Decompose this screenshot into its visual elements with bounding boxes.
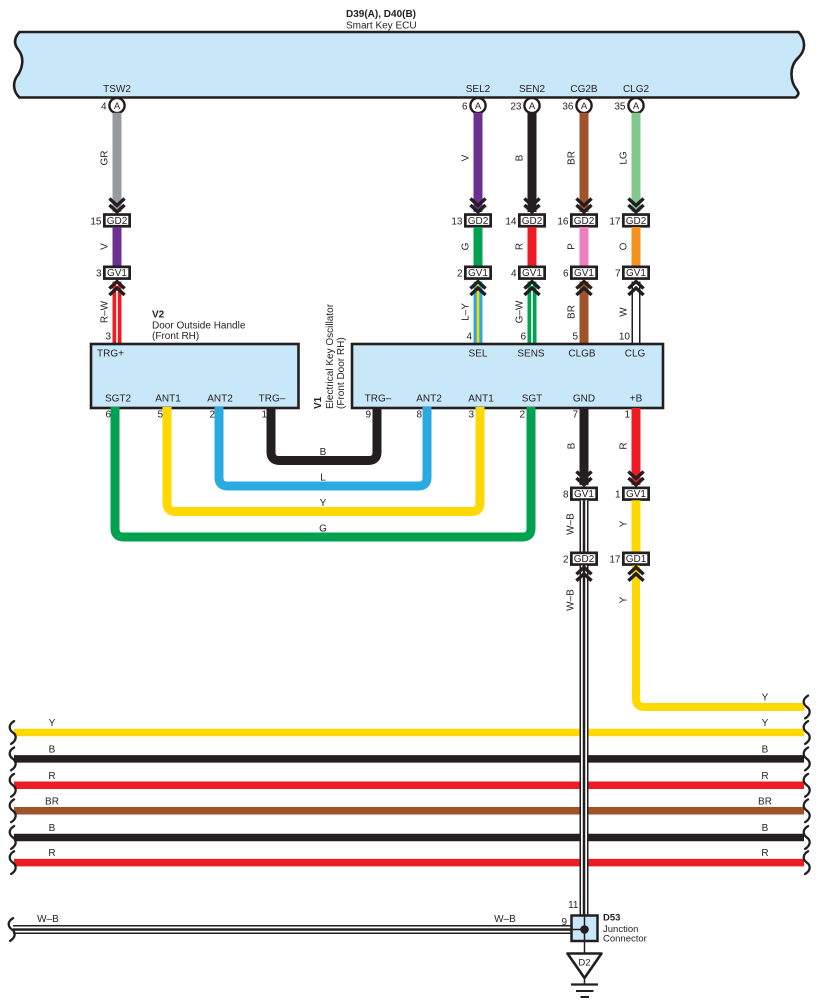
wire W-B to D53 pin 9 <box>13 925 572 934</box>
svg-text:V: V <box>461 154 472 161</box>
svg-text:L: L <box>320 473 326 484</box>
svg-text:16: 16 <box>557 216 569 227</box>
svg-text:Y: Y <box>619 596 630 603</box>
svg-text:4: 4 <box>511 269 517 280</box>
wire B (V2 TRG- 1 to V1 TRG- 9) <box>271 407 377 461</box>
svg-text:CLGB: CLGB <box>568 349 596 360</box>
svg-text:Door Outside Handle: Door Outside Handle <box>152 321 246 332</box>
svg-text:+B: +B <box>630 394 643 405</box>
svg-text:SGT2: SGT2 <box>105 394 132 405</box>
svg-text:GV1: GV1 <box>626 268 646 279</box>
svg-text:A: A <box>633 101 640 112</box>
wire Y (V2 ANT1 5 to V1 ANT1 3) <box>167 407 480 512</box>
svg-text:W–B: W–B <box>494 914 516 925</box>
break symbol BR left <box>10 799 16 822</box>
svg-text:G–W: G–W <box>515 300 526 323</box>
component V1 Electrical Key Oscillator (Front Door RH) box <box>352 344 663 408</box>
junction connector GV1 pin 2 <box>465 267 490 279</box>
svg-text:GD1: GD1 <box>626 554 647 565</box>
wire R from V1 +B <box>632 408 641 485</box>
wire W-B (GD2 2 down to D53 pin 11) <box>580 566 589 916</box>
svg-text:G: G <box>319 524 327 535</box>
svg-text:GD2: GD2 <box>107 216 128 227</box>
arrow down into GD2 13 <box>470 199 485 213</box>
svg-text:ANT2: ANT2 <box>207 394 233 405</box>
svg-text:W–B: W–B <box>566 589 577 611</box>
svg-text:GV1: GV1 <box>522 268 542 279</box>
wire W-B vertical crossing bus <box>580 700 589 916</box>
wire V (GD2 15 to GV1 3) <box>113 227 122 267</box>
junction connector GD2 pin 14 <box>519 215 544 227</box>
svg-text:Y: Y <box>762 693 769 704</box>
junction connector GV1 pin 7 <box>623 267 648 279</box>
svg-text:Y: Y <box>49 718 56 729</box>
connector circle A pin 35 (CLG2) <box>614 98 643 113</box>
svg-text:P: P <box>567 243 578 250</box>
break symbol R left <box>10 774 16 797</box>
svg-text:6: 6 <box>520 332 526 343</box>
junction connector GD2 pin 17 <box>623 215 648 227</box>
svg-text:A: A <box>529 101 536 112</box>
wire L (V2 ANT2 2 to V1 ANT2 8) <box>219 407 427 486</box>
bus wire B <box>14 834 804 842</box>
svg-text:1: 1 <box>624 410 630 421</box>
svg-text:10: 10 <box>619 332 631 343</box>
wire to ground D2 <box>584 930 586 954</box>
svg-text:A: A <box>475 101 482 112</box>
svg-text:R–W: R–W <box>100 300 111 323</box>
svg-text:D39(A), D40(B): D39(A), D40(B) <box>346 9 416 20</box>
wire B from V1 GND <box>580 408 589 485</box>
svg-text:R: R <box>48 848 55 859</box>
junction connector GD2 pin 15 <box>104 215 129 227</box>
svg-text:GD2: GD2 <box>574 216 595 227</box>
svg-text:GV1: GV1 <box>626 489 646 500</box>
svg-text:L–Y: L–Y <box>461 303 472 321</box>
wire G-W to V1 SENS <box>528 282 537 345</box>
svg-text:CLG: CLG <box>625 349 646 360</box>
break symbol Y right top <box>804 696 810 719</box>
svg-text:Y: Y <box>762 718 769 729</box>
arrow up from Y wire <box>628 567 643 581</box>
junction connector GD2 pin 2 <box>571 553 596 565</box>
arrow down into GD2 15 <box>109 199 124 213</box>
svg-text:TRG–: TRG– <box>365 394 392 405</box>
bus wire R <box>14 859 804 867</box>
wire Y elbow to right edge <box>636 566 804 708</box>
wire G (V2 SGT2 6 to V1 SGT 2) <box>115 407 531 537</box>
bus wire R <box>14 782 804 790</box>
wire BR from ECU CG2B <box>580 113 589 212</box>
svg-text:3: 3 <box>105 332 111 343</box>
svg-text:R: R <box>761 848 768 859</box>
svg-text:GR: GR <box>100 151 111 166</box>
svg-text:7: 7 <box>572 410 578 421</box>
connector circle A pin 4 (TSW2) <box>101 98 125 113</box>
svg-text:V1: V1 <box>313 396 324 409</box>
break symbol B left <box>10 826 16 849</box>
svg-text:(Front RH): (Front RH) <box>152 331 199 342</box>
svg-text:BR: BR <box>567 151 578 165</box>
junction connector GD2 pin 13 <box>465 215 490 227</box>
svg-text:2: 2 <box>519 410 525 421</box>
svg-text:ANT2: ANT2 <box>416 394 442 405</box>
connector circle A pin 6 (SEL2) <box>462 98 486 113</box>
svg-text:GD2: GD2 <box>522 216 543 227</box>
svg-text:GV1: GV1 <box>574 268 594 279</box>
junction connector GV1 pin 8 <box>571 488 596 500</box>
svg-text:2: 2 <box>457 269 463 280</box>
wire P (GD2 16 to GV1 6) <box>580 227 589 267</box>
svg-text:B: B <box>49 744 56 755</box>
svg-text:11: 11 <box>568 900 579 911</box>
svg-text:35: 35 <box>614 102 626 113</box>
svg-text:D53: D53 <box>603 913 620 924</box>
svg-text:Y: Y <box>619 520 630 527</box>
svg-text:SGT: SGT <box>522 394 543 405</box>
svg-text:B: B <box>320 447 327 458</box>
break symbol R right <box>804 851 810 874</box>
svg-text:B: B <box>49 823 56 834</box>
svg-text:W: W <box>619 307 630 317</box>
component V2 Door Outside Handle (Front RH) box <box>91 344 299 408</box>
arrow up from BR wire <box>576 282 591 296</box>
bus wire Y <box>14 729 804 737</box>
break symbol Y right <box>804 721 810 744</box>
svg-text:R: R <box>515 243 526 250</box>
svg-text:6: 6 <box>462 102 468 113</box>
svg-text:8: 8 <box>563 489 569 500</box>
svg-text:SEN2: SEN2 <box>519 84 546 95</box>
svg-text:BR: BR <box>758 796 772 807</box>
wire O (GD2 17 to GV1 7) <box>632 227 641 267</box>
svg-text:17: 17 <box>609 554 621 565</box>
connector circle A pin 23 (SEN2) <box>510 98 539 113</box>
wire BR to V1 CLGB <box>580 282 589 345</box>
svg-text:W–B: W–B <box>566 513 577 535</box>
junction connector GD2 pin 16 <box>571 215 596 227</box>
svg-text:(Front Door RH): (Front Door RH) <box>336 337 347 409</box>
svg-text:5: 5 <box>572 332 578 343</box>
arrow down into GD2 14 <box>524 199 539 213</box>
svg-text:LG: LG <box>619 151 630 165</box>
break symbol R right <box>804 774 810 797</box>
junction connector GD1 pin 17 <box>623 553 648 565</box>
break symbol BR right <box>804 799 810 822</box>
svg-text:SEL2: SEL2 <box>466 84 491 95</box>
svg-text:1: 1 <box>615 489 621 500</box>
wire L-Y to V1 SEL <box>474 282 483 345</box>
svg-text:B: B <box>515 154 526 161</box>
svg-text:TRG–: TRG– <box>259 394 286 405</box>
svg-text:SEL: SEL <box>469 349 488 360</box>
bus wire BR <box>14 807 804 815</box>
junction connector GV1 pin 3 <box>104 267 129 279</box>
arrow up from L–Y wire <box>470 282 485 296</box>
svg-text:B: B <box>762 744 769 755</box>
svg-text:Smart Key ECU: Smart Key ECU <box>346 21 417 32</box>
ground triangle D2 <box>568 954 602 979</box>
arrow up from W wire <box>628 282 643 296</box>
svg-text:CG2B: CG2B <box>570 84 598 95</box>
svg-text:TSW2: TSW2 <box>103 84 131 95</box>
arrow down into GV1 1 <box>628 472 643 486</box>
break symbol B right <box>804 826 810 849</box>
svg-text:B: B <box>567 442 578 449</box>
wire GR from ECU TSW2 <box>113 113 122 212</box>
arrow up from G–W wire <box>524 282 539 296</box>
svg-text:A: A <box>114 101 121 112</box>
wire G (GD2 13 to GV1 2) <box>474 227 483 267</box>
svg-text:4: 4 <box>466 332 472 343</box>
svg-text:B: B <box>762 823 769 834</box>
break symbol R left <box>10 851 16 874</box>
arrow down into GD2 17 <box>628 199 643 213</box>
svg-text:Electrical Key Oscillator: Electrical Key Oscillator <box>325 303 336 409</box>
wire LG from ECU CLG2 <box>632 113 641 212</box>
svg-text:2: 2 <box>563 554 569 565</box>
svg-text:3: 3 <box>468 410 474 421</box>
wire R (GD2 14 to GV1 4) <box>528 227 537 267</box>
svg-text:8: 8 <box>416 410 422 421</box>
wire V from ECU SEL2 <box>474 113 483 212</box>
svg-text:6: 6 <box>563 269 569 280</box>
arrow down into GV1 8 <box>576 472 591 486</box>
svg-text:3: 3 <box>96 269 102 280</box>
svg-text:Y: Y <box>320 498 327 509</box>
svg-text:CLG2: CLG2 <box>623 84 650 95</box>
junction connector GV1 pin 6 <box>571 267 596 279</box>
svg-text:7: 7 <box>615 269 621 280</box>
svg-text:BR: BR <box>567 305 578 319</box>
svg-text:SENS: SENS <box>517 349 545 360</box>
break symbol W-B left <box>9 918 15 941</box>
svg-text:17: 17 <box>609 216 621 227</box>
junction connector D53 <box>572 916 598 942</box>
svg-text:GND: GND <box>573 394 595 405</box>
svg-text:R: R <box>619 442 630 449</box>
svg-text:15: 15 <box>90 216 102 227</box>
svg-text:9: 9 <box>561 917 567 928</box>
svg-text:GD2: GD2 <box>468 216 489 227</box>
svg-text:14: 14 <box>505 216 517 227</box>
svg-text:BR: BR <box>45 796 59 807</box>
connector circle A pin 36 (CG2B) <box>562 98 591 113</box>
arrow up from W-B wire <box>576 567 591 581</box>
break symbol Y left <box>10 721 16 744</box>
svg-text:GD2: GD2 <box>574 554 595 565</box>
wire W to V1 CLG <box>632 282 641 345</box>
wire B from ECU SEN2 <box>528 113 537 212</box>
arrow up from R-W wire <box>109 282 124 296</box>
svg-text:O: O <box>619 242 630 250</box>
svg-text:V: V <box>100 243 111 250</box>
svg-text:GD2: GD2 <box>626 216 647 227</box>
bus wire B <box>14 755 804 763</box>
wire Y (GV1 1 to GD1 17) <box>632 500 641 552</box>
svg-text:GV1: GV1 <box>574 489 594 500</box>
svg-text:4: 4 <box>101 102 107 113</box>
svg-text:ANT1: ANT1 <box>468 394 494 405</box>
svg-text:9: 9 <box>365 410 371 421</box>
svg-text:GV1: GV1 <box>468 268 488 279</box>
ECU band D39(A) D40(B) Smart Key ECU <box>14 32 804 98</box>
svg-text:TRG+: TRG+ <box>97 349 124 360</box>
junction connector GV1 pin 1 <box>623 488 648 500</box>
wire R-W to V2 TRG+ <box>113 282 122 345</box>
svg-text:GV1: GV1 <box>107 268 127 279</box>
svg-text:G: G <box>461 242 472 250</box>
svg-text:Connector: Connector <box>603 934 647 945</box>
svg-text:W–B: W–B <box>37 914 59 925</box>
svg-text:13: 13 <box>451 216 463 227</box>
ground symbol <box>571 978 598 997</box>
junction connector GV1 pin 4 <box>519 267 544 279</box>
svg-text:36: 36 <box>562 102 574 113</box>
svg-text:ANT1: ANT1 <box>155 394 181 405</box>
wire W-B (GV1 8 to GD2 2) <box>580 500 589 552</box>
svg-text:V2: V2 <box>152 310 165 321</box>
break symbol B left <box>10 748 16 771</box>
svg-text:23: 23 <box>510 102 522 113</box>
svg-text:R: R <box>48 771 55 782</box>
break symbol B right <box>804 748 810 771</box>
arrow down into GD2 16 <box>576 199 591 213</box>
svg-text:A: A <box>581 101 588 112</box>
svg-text:D2: D2 <box>578 958 590 969</box>
svg-text:R: R <box>761 771 768 782</box>
